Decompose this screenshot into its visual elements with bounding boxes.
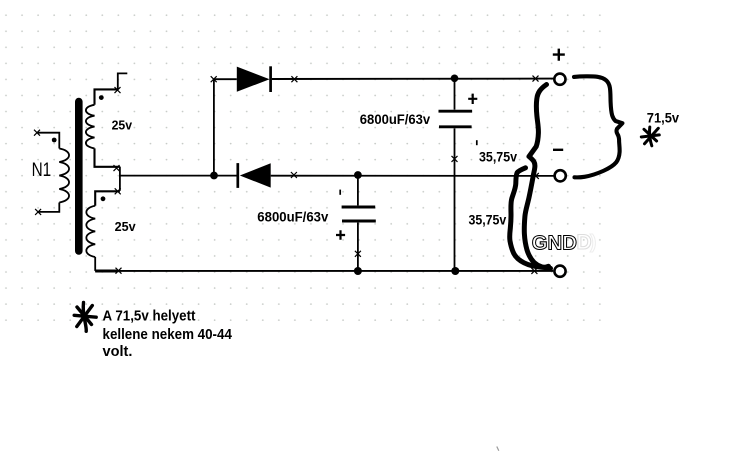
transformer N1 secondary winding 2 (bottom, 25v): [86, 191, 120, 271]
x mark before + terminal: [533, 76, 539, 82]
x mark diode1 right: [291, 76, 297, 82]
label 35,75v upper: [479, 149, 518, 164]
label N1: [32, 160, 52, 181]
svg-text:6800uF/63v: 6800uF/63v: [257, 208, 328, 224]
label 25v top: [112, 118, 133, 133]
x mark before - terminal: [533, 173, 539, 179]
terminal x secondary2 top: [115, 188, 121, 194]
note text line 1: [103, 309, 196, 325]
output terminal -: [555, 170, 566, 181]
wire top rail: [272, 78, 554, 80]
svg-text:GND: GND: [532, 231, 577, 254]
terminal x secondary1 top: [115, 87, 121, 93]
label 25v bottom: [115, 219, 137, 234]
ghost text remnant: [577, 231, 597, 254]
x mark C2 lead: [355, 251, 361, 257]
hand brace left lower (35,75v - to GND): [510, 168, 549, 268]
svg-text:): ): [590, 232, 596, 253]
note text line 3: [103, 344, 133, 360]
transformer N1 primary winding: [38, 133, 69, 212]
capacitor C1 bottom lead: [454, 128, 456, 271]
capacitor C2 plates: [342, 207, 376, 221]
diode D2: [238, 163, 271, 188]
capacitor C1 top lead: [454, 78, 456, 110]
hand brace left upper (35,75v + to -): [524, 85, 550, 269]
wire middle rail left: [120, 175, 238, 177]
capacitor C2 value 6800uF/63v: [257, 208, 328, 224]
stray apostrophe near C2: [339, 190, 341, 195]
svg-text:kellene nekem 40-44: kellene nekem 40-44: [103, 327, 233, 343]
hand brace right (71,5v span): [574, 76, 622, 177]
label + output: [553, 49, 565, 61]
svg-text:25v: 25v: [115, 219, 137, 234]
center tap vertical wire: [119, 167, 121, 191]
transformer N1 secondary winding 1 (top, 25v): [86, 89, 120, 166]
junction node bottom cap top: [354, 171, 362, 179]
x mark before GND terminal: [531, 268, 537, 274]
capacitor C1 plates: [439, 111, 473, 127]
junction node diode1/center tap: [210, 172, 218, 180]
svg-text:N1: N1: [32, 160, 52, 181]
terminal x primary bottom: [35, 209, 41, 215]
x mark diode2 right: [291, 172, 297, 178]
grid dots: [0, 7, 602, 322]
stray apostrophe near C1: [476, 140, 478, 145]
secondary 1 open stub hook: [118, 73, 128, 89]
svg-text:25v: 25v: [112, 118, 133, 133]
label - output: [553, 149, 563, 151]
svg-text:6800uF/63v: 6800uF/63v: [360, 111, 431, 127]
secondary 1 phase dot: [99, 95, 104, 100]
x mark diode1 left: [211, 76, 217, 82]
wire middle rail right: [271, 175, 555, 177]
label GND: [532, 231, 577, 254]
primary phase dot: [52, 138, 57, 143]
capacitor C2 top lead: [357, 175, 359, 205]
terminal x primary top: [34, 130, 40, 136]
diode D1: [237, 66, 271, 92]
secondary 2 phase dot: [101, 196, 106, 201]
svg-text:35,75v: 35,75v: [469, 213, 507, 228]
transformer N1 core: [75, 102, 83, 252]
terminal x secondary1 bottom: [114, 165, 120, 171]
output terminal GND: [554, 266, 565, 277]
capacitor C1 polarity +: [468, 94, 477, 104]
junction node top cap: [451, 75, 459, 83]
junction node C2 bottom: [354, 267, 362, 275]
wire diode1 anode riser: [213, 79, 215, 175]
label 35,75v lower: [469, 213, 507, 228]
svg-text:volt.: volt.: [103, 344, 133, 360]
capacitor C2 bottom lead: [357, 223, 359, 271]
capacitor C2 polarity +: [336, 230, 345, 240]
wire diode1 anode horizontal: [214, 78, 237, 80]
svg-text:A 71,5v helyett: A 71,5v helyett: [103, 309, 196, 325]
junction node C1 bottom: [451, 267, 459, 275]
note text line 2: [103, 327, 233, 343]
terminal x secondary2 bottom: [116, 268, 122, 274]
stray mark bottom: [497, 447, 499, 451]
svg-text:35,75v: 35,75v: [479, 149, 518, 164]
x mark C1 lead: [452, 156, 458, 162]
output terminal +: [554, 74, 565, 85]
hand star left (footnote): [74, 303, 96, 332]
wire bottom rail: [95, 270, 553, 272]
svg-text:71,5v: 71,5v: [647, 110, 680, 125]
label 71,5v: [647, 110, 680, 125]
hand star right: [641, 127, 659, 146]
capacitor C1 value 6800uF/63v: [360, 111, 431, 127]
